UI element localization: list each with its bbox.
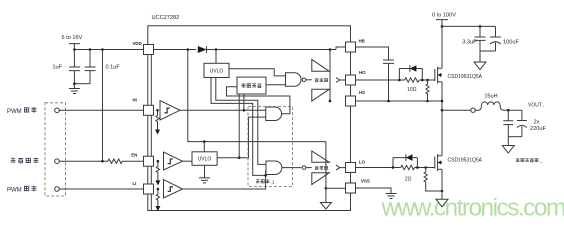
level shift box — [237, 77, 266, 94]
svg-text:HS: HS — [359, 90, 365, 95]
capacitor 100uF (polarized) — [490, 26, 501, 37]
capacitor out B (polarized) — [517, 110, 527, 120]
pin HI — [144, 105, 154, 115]
svg-text:HB: HB — [359, 39, 365, 44]
ground bulk caps (arrow) — [479, 51, 481, 62]
UVLO U2 box — [192, 152, 217, 166]
wire LI input — [59, 188, 144, 190]
diode high gate — [399, 69, 422, 81]
resistor LI pulldown with arrow — [156, 189, 159, 206]
node LO right — [416, 166, 419, 169]
IC body UCC27282 — [148, 26, 351, 211]
node rail-EN pullup — [101, 48, 104, 51]
wire source high to switch node — [441, 82, 443, 156]
driver stage high — [302, 78, 306, 82]
wire HS external — [355, 100, 442, 102]
wire HI input — [59, 109, 144, 111]
wire UVLO1 supply — [215, 50, 217, 64]
svg-text:www.cntronics.com: www.cntronics.com — [381, 195, 564, 217]
svg-text:CSD19531Q5A: CSD19531Q5A — [448, 74, 483, 80]
capacitor 1uF — [69, 50, 80, 84]
pin HB — [346, 42, 356, 52]
terminal LI input — [55, 187, 60, 192]
wire stub h2 — [211, 78, 266, 176]
node gate high — [426, 79, 429, 82]
power rail bar 6-16V — [69, 44, 80, 50]
resistor 2 ohm — [401, 165, 415, 169]
wire driver high supply — [329, 50, 331, 102]
wire HB external — [355, 47, 389, 60]
capacitor out A — [503, 110, 513, 137]
terminal EN input — [55, 159, 60, 164]
pin LO — [346, 163, 356, 173]
svg-text:UVLO: UVLO — [198, 157, 212, 163]
svg-text:2Ω: 2Ω — [405, 176, 412, 182]
wire level-shift feed vertical — [238, 94, 240, 158]
svg-text:UVLO: UVLO — [210, 69, 224, 75]
wire HI interlock vertical — [243, 94, 245, 110]
node VDD-down — [187, 48, 190, 51]
AND gate A3 (high side) — [286, 73, 302, 86]
wire output caps bottom — [508, 136, 522, 138]
wire EN pullup from rail — [102, 50, 104, 162]
AND gate A1 (interlock top) — [266, 107, 282, 121]
terminal HI input — [55, 108, 60, 113]
wire caps bottom — [480, 50, 496, 52]
ground UVLO2 — [199, 165, 210, 183]
wire UVLO1 stub h1 — [216, 78, 266, 165]
wire driver low supply — [325, 142, 327, 189]
wire VDD internal down — [188, 50, 326, 142]
svg-text:15uH: 15uH — [484, 93, 497, 99]
wire LO external — [355, 167, 435, 169]
svg-text:PWM: PWM — [7, 109, 22, 115]
wire to bulk caps — [442, 25, 496, 27]
resistor 10 ohm — [405, 78, 420, 82]
wire UVLO1 out to AND-H — [229, 69, 286, 76]
wire source low to ground — [441, 169, 443, 199]
wire UVLO2 supply stub — [203, 142, 205, 152]
wire drain high to rail — [441, 26, 443, 68]
svg-text:1uF: 1uF — [52, 65, 62, 71]
wire VSS external — [355, 188, 391, 194]
wire LI to AND2 — [183, 171, 267, 189]
internal VDD rail — [153, 47, 346, 50]
transistor Q1 CSD19531Q5A (high) — [434, 69, 436, 81]
node gate low — [424, 166, 427, 169]
svg-text:220uF: 220uF — [530, 126, 546, 132]
node EN pulldown — [157, 160, 160, 163]
node LO left — [392, 166, 395, 169]
label output caps — [516, 158, 520, 162]
diode low gate — [393, 158, 417, 168]
node UVLO2 supply — [203, 140, 206, 143]
svg-text:LO: LO — [359, 159, 366, 164]
node AND2 in2 — [264, 174, 267, 177]
capacitor 3.3uF — [475, 26, 486, 51]
capacitor bootstrap — [383, 60, 394, 101]
pin LI — [144, 184, 154, 194]
transistor Q2 CSD19531Q5A (low) — [434, 157, 436, 169]
wire AND1 out loop to LS input — [227, 87, 290, 114]
wire EN buffer to UVLO2 — [183, 160, 193, 162]
svg-text:0 to 100V: 0 to 100V — [432, 12, 456, 18]
op-amp buffer HI (schmitt) — [160, 101, 180, 121]
driver stage low — [302, 166, 306, 170]
node rail-cap2 — [89, 48, 92, 51]
ground output caps (arrow) — [507, 137, 509, 146]
pin HS — [346, 96, 356, 106]
svg-text:100uF: 100uF — [503, 40, 519, 46]
pin HO — [346, 75, 356, 85]
wire VSS internal — [326, 187, 346, 189]
svg-text:.1: .1 — [271, 180, 275, 185]
op-amp buffer LI (schmitt) — [164, 180, 183, 199]
svg-text:VDD: VDD — [133, 41, 142, 46]
wire switch node to inductor — [442, 109, 471, 111]
resistor HI pulldown with arrow — [156, 110, 159, 129]
terminal inductor left — [471, 108, 475, 112]
ground driver low — [325, 188, 327, 202]
pin VSS — [346, 183, 356, 193]
node driver supply — [329, 48, 332, 51]
node switch-inductor tap — [441, 109, 444, 112]
ground low fet (arrow) — [436, 199, 448, 207]
node HO right — [421, 79, 424, 82]
svg-text:PWM: PWM — [7, 187, 22, 193]
svg-text:10Ω: 10Ω — [407, 87, 417, 93]
svg-text:2x: 2x — [534, 120, 540, 126]
node LI pulldown — [157, 188, 160, 191]
svg-text:CSD19531Q5A: CSD19531Q5A — [448, 158, 483, 164]
label enable input — [11, 158, 16, 163]
svg-text:LI: LI — [133, 181, 137, 186]
node HI pulldown — [156, 109, 159, 112]
svg-text:VOUT..: VOUT.. — [528, 102, 544, 108]
wire AND3 out — [300, 79, 302, 81]
svg-text:EN: EN — [131, 152, 137, 157]
wire EN input — [59, 160, 108, 162]
node HO left — [398, 79, 401, 82]
svg-text:.,: ., — [540, 159, 543, 164]
ground bypass caps — [69, 84, 80, 94]
op-amp buffer EN (schmitt) — [164, 152, 183, 170]
AND gate A2 (interlock bottom) — [266, 161, 282, 175]
capacitor 0.1uF — [85, 50, 96, 84]
wire HO external — [355, 79, 435, 81]
power rail bar 100V — [436, 20, 448, 27]
ground VSS — [386, 194, 397, 199]
svg-text:VSS: VSS — [361, 179, 370, 184]
resistor gate-source low — [424, 168, 442, 192]
node output caps — [507, 109, 510, 112]
svg-text:0.1uF: 0.1uF — [106, 65, 121, 71]
pin VDD — [144, 45, 154, 55]
wire VDD rail — [74, 49, 144, 51]
input dashed box — [45, 103, 66, 196]
resistor EN pulldown with arrow — [156, 161, 159, 180]
svg-text:HI: HI — [133, 98, 137, 103]
node UVLO supply — [215, 48, 218, 51]
diode bootstrap (internal) — [198, 46, 207, 53]
wire UVLO2 out — [217, 117, 266, 158]
svg-text:3.3uF: 3.3uF — [462, 40, 477, 46]
UVLO U1 box — [204, 63, 229, 77]
pin EN — [144, 156, 154, 166]
wire cap bottoms — [74, 83, 90, 85]
wire LS out to AND-H — [266, 84, 286, 86]
svg-text:6 to 16V: 6 to 16V — [62, 35, 83, 41]
resistor gate-source high — [426, 80, 429, 101]
svg-text:UCC27282: UCC27282 — [152, 15, 180, 21]
wire AND2 out to driver L — [282, 167, 302, 169]
resistor EN series — [108, 159, 144, 163]
node rail-cap1 — [73, 48, 76, 51]
interlock dashed box — [248, 107, 293, 187]
node cap ground — [73, 82, 76, 85]
svg-text:HO: HO — [359, 70, 366, 75]
wire internal VDD bus (left pin column) — [150, 54, 152, 211]
wire HI to AND1 — [180, 109, 266, 111]
node EN pullup join — [101, 160, 104, 163]
